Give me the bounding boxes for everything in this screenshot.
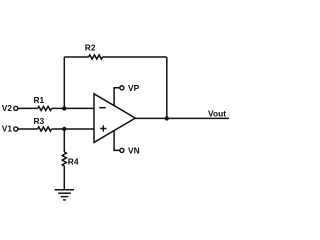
op-amp U1 triangle [94, 94, 135, 143]
wire feedback-left vertical (node IN- to top) [63, 57, 65, 108]
wire feedback-right vertical (top to output node) [166, 57, 168, 118]
wire top horizontal left of R2 [64, 56, 88, 58]
svg-text:R4: R4 [68, 157, 79, 167]
terminal circle VN [120, 148, 124, 152]
svg-text:V2: V2 [2, 103, 13, 113]
op-amp minus input symbol [99, 107, 106, 109]
wire R3 to op-amp non-inverting input [52, 128, 94, 130]
wire op-amp output to right edge [135, 117, 229, 119]
svg-text:Vout: Vout [208, 109, 226, 119]
wire V1 terminal to R3 [18, 128, 38, 130]
wire VP pin elbow [114, 88, 120, 106]
svg-text:R2: R2 [85, 43, 96, 53]
junction node IN- [62, 106, 66, 110]
wire top horizontal right of R2 [103, 56, 167, 58]
resistor R1 [38, 106, 52, 110]
junction node IN+ [62, 127, 66, 131]
resistor R4 [62, 152, 66, 166]
svg-text:V1: V1 [2, 124, 13, 134]
junction node OUT [165, 116, 169, 120]
wire R4 to ground [63, 166, 65, 190]
svg-text:R1: R1 [34, 95, 45, 105]
wire VN pin elbow [114, 131, 120, 151]
ground [55, 190, 75, 200]
svg-text:VN: VN [128, 146, 140, 156]
op-amp plus input symbol [100, 125, 106, 131]
wire node IN+ down to R4 [63, 129, 65, 152]
svg-text:VP: VP [128, 83, 140, 93]
resistor R2 [89, 55, 103, 59]
svg-text:R3: R3 [34, 116, 45, 126]
terminal circle V1 [14, 127, 18, 131]
resistor R3 [38, 127, 52, 131]
wire V2 terminal to R1 [18, 107, 38, 109]
terminal circle VP [120, 86, 124, 90]
wire R1 to op-amp inverting input [52, 107, 94, 109]
terminal circle V2 [14, 106, 18, 110]
